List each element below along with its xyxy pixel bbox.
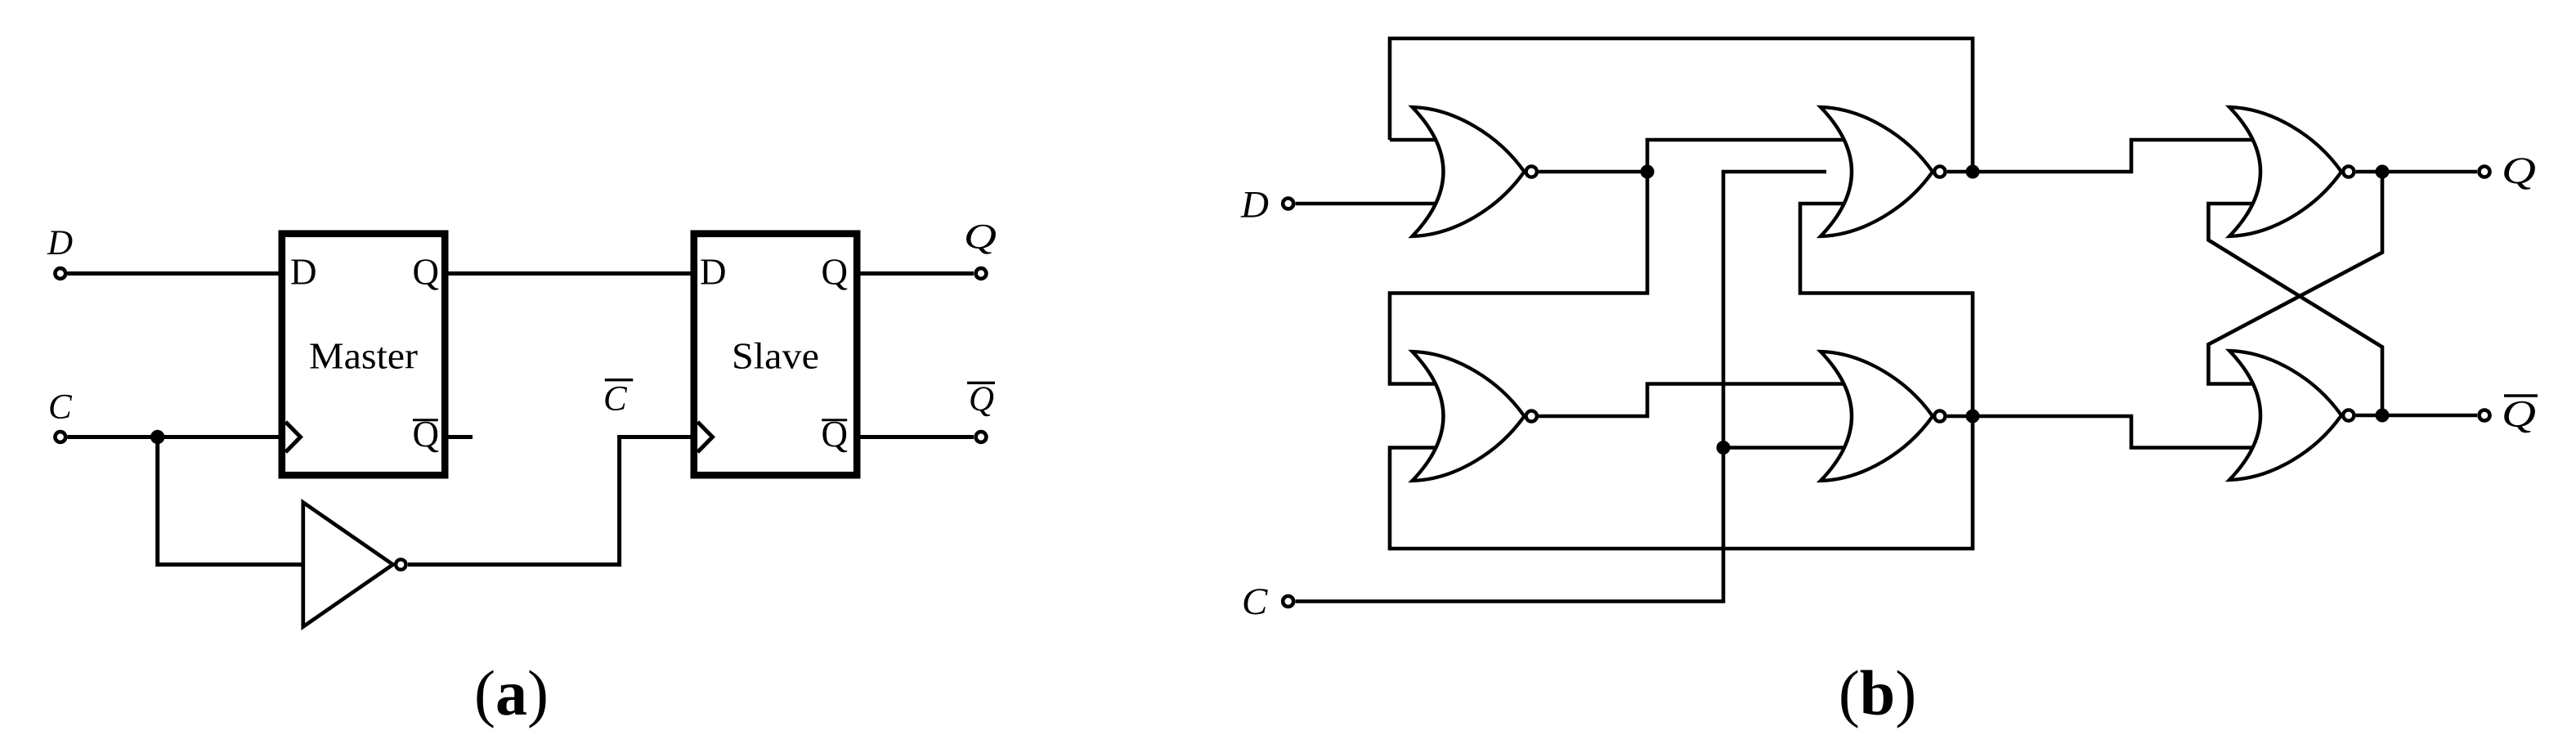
terminal D (a) (55, 268, 65, 279)
wire C junction down to inverter (158, 437, 304, 565)
wire node n1 down to G3 upper input (1390, 172, 1647, 384)
wire G5 output to terminal Q (2356, 170, 2477, 174)
svg-text:Q: Q (2502, 150, 2536, 192)
terminal Q-bar (b) (2480, 410, 2490, 421)
wire G4 output to node n4 (1947, 415, 1973, 419)
wire D input (a) (68, 271, 283, 276)
svg-text:Q: Q (2502, 392, 2536, 435)
flip-flop block U2 Slave (694, 234, 857, 475)
inverter U3 (303, 503, 393, 627)
wire G6 output to terminal Q-bar (2356, 414, 2477, 418)
node n1 junction (1641, 165, 1655, 179)
wire G1 output to node n1 (1539, 170, 1647, 174)
terminal Q-bar (a) (976, 432, 987, 442)
nor-gate G6 (2229, 351, 2354, 480)
terminal C (a) (55, 432, 65, 442)
wire node n1 up to G2 upper input (1647, 140, 1857, 172)
svg-text:D: D (1240, 184, 1269, 226)
node C junction dot (a) (150, 430, 164, 444)
pin clock triangle Master (285, 422, 300, 452)
node Q-bar junction (2376, 409, 2390, 423)
nor-gate G4 (1821, 352, 1945, 481)
svg-text:C: C (48, 388, 73, 426)
svg-text:Slave: Slave (732, 335, 819, 377)
wire Master Q to Slave D (445, 271, 694, 276)
pin clock triangle Slave (697, 422, 712, 452)
svg-text:D: D (290, 252, 317, 293)
terminal Q (a) (976, 268, 987, 279)
svg-text:D: D (47, 224, 73, 262)
svg-text:Master: Master (309, 335, 418, 377)
wire node n2 to G5 upper input (1973, 140, 2266, 172)
nor-gate G5 (2229, 107, 2354, 236)
svg-text:(a): (a) (474, 657, 549, 728)
wire node n4 to G2 lower input and G3 lower input (1390, 204, 1973, 549)
wire C branch to G4 lower input (1723, 446, 1857, 450)
wire D input (b) (1296, 202, 1449, 206)
wire C input riser (b) (1296, 172, 1826, 602)
svg-text:(b): (b) (1839, 657, 1916, 728)
svg-text:Q: Q (969, 380, 994, 419)
wire Slave Q-bar output (857, 435, 974, 439)
wire Master Q-bar stub (445, 435, 473, 439)
svg-text:Q: Q (413, 252, 440, 293)
wire G3 output to G4 upper input (1539, 384, 1857, 417)
node Q junction (2376, 165, 2390, 179)
nor-gate G1 (1413, 107, 1537, 236)
nor-gate G2 (1821, 107, 1945, 236)
terminal C (b) (1283, 596, 1293, 607)
wire Slave Q output (857, 271, 974, 276)
wire C input (a) (68, 435, 283, 439)
wire G1 upper input (1390, 138, 1449, 142)
svg-text:C: C (1242, 580, 1268, 623)
svg-text:C: C (603, 380, 628, 419)
node n2 junction (1966, 165, 1980, 179)
wire node n4 to G6 lower input (1973, 416, 2266, 448)
node n4 junction (1966, 410, 1980, 424)
svg-text:Q: Q (822, 252, 849, 293)
wire top feedback rail (b) (1390, 38, 1973, 172)
flip-flop block U1 Master (282, 234, 445, 475)
wire Q-bar cross-coupling to G5 lower input (2208, 204, 2382, 415)
wire G2 output to node n2 (1947, 170, 1973, 174)
svg-text:D: D (700, 252, 727, 293)
terminal Q (b) (2480, 167, 2490, 177)
terminal D (b) (1283, 199, 1293, 209)
node C junction (b) (1717, 441, 1731, 455)
wire inverter output to Slave clock (C-bar net) (408, 437, 694, 565)
nor-gate G3 (1413, 352, 1537, 481)
inverter U3 output bubble (396, 559, 405, 569)
wire Q cross-coupling to G6 upper input (2208, 172, 2382, 384)
svg-text:Q: Q (964, 217, 997, 256)
